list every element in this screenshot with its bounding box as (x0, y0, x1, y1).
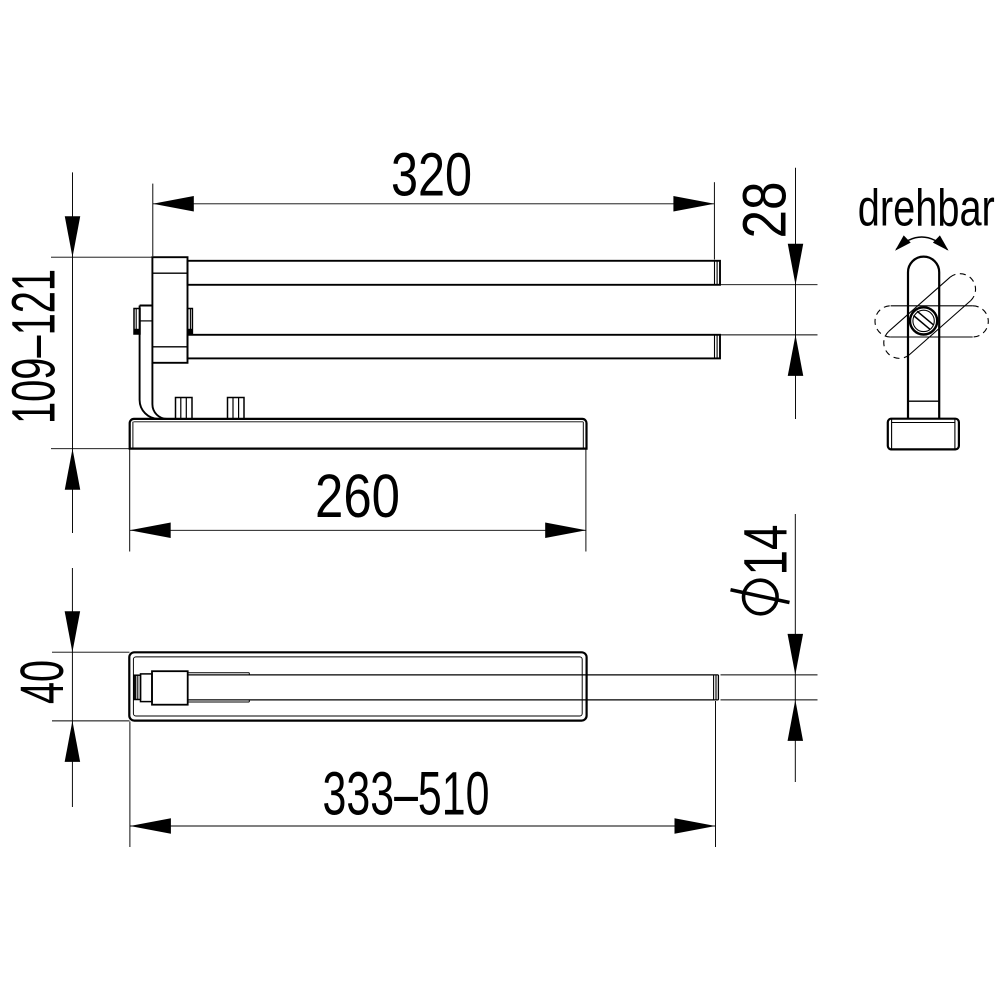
ext line top (721, 674, 818, 676)
base plate bottom view inner (133, 657, 582, 716)
arrow up 28 (788, 335, 804, 376)
dim line (71, 568, 73, 807)
dim line (795, 168, 797, 419)
ext line bottom (721, 699, 818, 701)
pivot pin left (134, 309, 140, 335)
bar end cap lines (714, 675, 716, 700)
dim line (153, 203, 715, 205)
ext line bottom (52, 720, 130, 722)
base plate bottom view outer (129, 652, 586, 720)
ext line lower (721, 334, 818, 336)
screw head (910, 307, 937, 334)
upper towel bar tube (188, 261, 721, 285)
arrow down phi14 (788, 634, 804, 675)
svg-text:320: 320 (391, 140, 472, 208)
petal horizontal (swung position) (875, 306, 988, 337)
bar joint line (908, 400, 939, 402)
housing mid bottom view (141, 674, 153, 702)
base plate side view (130, 419, 587, 449)
petal diagonal (swung position) (884, 274, 976, 359)
svg-text:260: 260 (315, 462, 400, 530)
ext line upper (721, 284, 818, 286)
ext line top (51, 256, 152, 258)
svg-text:28: 28 (731, 182, 799, 239)
arrow left 320 (153, 196, 194, 212)
clip 2 on base plate (228, 398, 245, 419)
dim line (130, 825, 716, 827)
base plate inner end lines (133, 422, 583, 449)
ext line top (52, 651, 130, 653)
swivel arc arrow (896, 237, 947, 250)
pivot bracket housing (152, 257, 187, 363)
folded bar bottom view (188, 675, 719, 700)
ext line right (715, 701, 717, 847)
phi symbol (744, 580, 778, 614)
icon base (888, 419, 959, 450)
lower towel bar tube (188, 335, 721, 359)
housing main bottom view (152, 671, 188, 705)
svg-text:333–510: 333–510 (323, 759, 490, 827)
ext line left (129, 722, 131, 848)
svg-text:40: 40 (8, 660, 76, 704)
arrow down 109-121 (65, 216, 81, 257)
clip 1 on base plate (176, 398, 193, 419)
upper tube end cap lines (715, 261, 718, 285)
arm internal line (140, 320, 153, 322)
ext line left (129, 450, 131, 552)
ext line right (585, 450, 587, 552)
base plate inner top line (134, 421, 584, 423)
arrow down 28 (788, 244, 804, 285)
arrow left 333-510 (130, 818, 171, 834)
arrow right 260 (545, 523, 586, 539)
arrow up 40 (65, 721, 81, 762)
ext line left (152, 184, 154, 257)
arrow right 320 (673, 196, 714, 212)
vertical bar front view (908, 257, 939, 419)
arrow left 260 (130, 523, 171, 539)
svg-text:drehbar: drehbar (858, 180, 995, 238)
arrow up phi14 (788, 700, 804, 741)
arrow down 40 (65, 611, 81, 652)
svg-text:109–121: 109–121 (0, 269, 68, 424)
sleeve lines (188, 673, 250, 702)
bracket internal line lower (152, 346, 187, 348)
wall arm (L-shape) (140, 306, 167, 419)
svg-text:14: 14 (732, 525, 800, 576)
dim line (130, 529, 587, 531)
ext line right (713, 182, 715, 259)
pivot pin right (188, 309, 193, 335)
dim line (72, 172, 74, 533)
dim line (794, 514, 796, 782)
bracket internal line upper (152, 272, 187, 274)
ext line bottom (51, 448, 130, 450)
lower tube end cap lines (715, 335, 718, 359)
arrow up 109-121 (65, 449, 81, 490)
sleeve end ticks (248, 673, 250, 702)
housing pin bottom view (134, 675, 140, 699)
arrow right 333-510 (675, 818, 716, 834)
